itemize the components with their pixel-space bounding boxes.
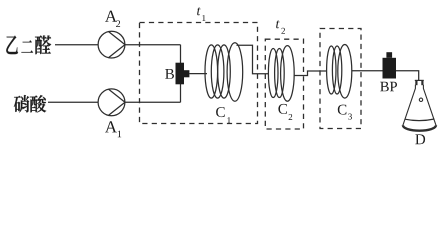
label A2 xyxy=(105,11,117,22)
heating zone t2 dashed box xyxy=(265,39,303,129)
coil C1 xyxy=(205,43,243,101)
glyph 硝 xyxy=(14,95,29,112)
wire glyoxal feed to pump A2 xyxy=(55,44,98,46)
coil C2 xyxy=(268,46,294,102)
wire mixer to coil C1 xyxy=(189,73,207,75)
flask D xyxy=(403,80,436,131)
glyph 乙 xyxy=(6,36,18,54)
wire pump A1 to junction xyxy=(125,101,181,103)
wire junction vertical xyxy=(180,45,182,103)
glyph 醛 xyxy=(35,35,51,54)
mixer B body xyxy=(176,63,190,85)
back-pressure regulator BP xyxy=(383,52,397,78)
pump A2 xyxy=(98,31,125,58)
wire C1 exit step down to t2 xyxy=(237,45,269,74)
cooling zone dashed box xyxy=(320,29,361,129)
wire BP to flask xyxy=(396,71,419,81)
label C1 xyxy=(216,107,225,117)
label t1 xyxy=(197,7,201,15)
heating zone t1 dashed box xyxy=(140,23,258,124)
coil C3 xyxy=(327,45,352,99)
wire nitric acid feed to pump A1 xyxy=(48,101,98,103)
label t2 xyxy=(276,20,280,28)
label A1 xyxy=(105,121,117,132)
wire pump A2 to junction xyxy=(125,44,181,46)
wire C3 to BP xyxy=(352,70,383,72)
label D xyxy=(415,134,425,144)
glyph 酸 xyxy=(30,95,46,112)
pump A1 xyxy=(98,89,125,116)
label BP xyxy=(380,82,397,92)
label C2 xyxy=(278,104,287,114)
glyph 二 xyxy=(21,40,33,52)
wire C2 exit step up to C3 xyxy=(294,71,327,76)
label B xyxy=(165,69,174,79)
label C3 xyxy=(338,105,347,115)
